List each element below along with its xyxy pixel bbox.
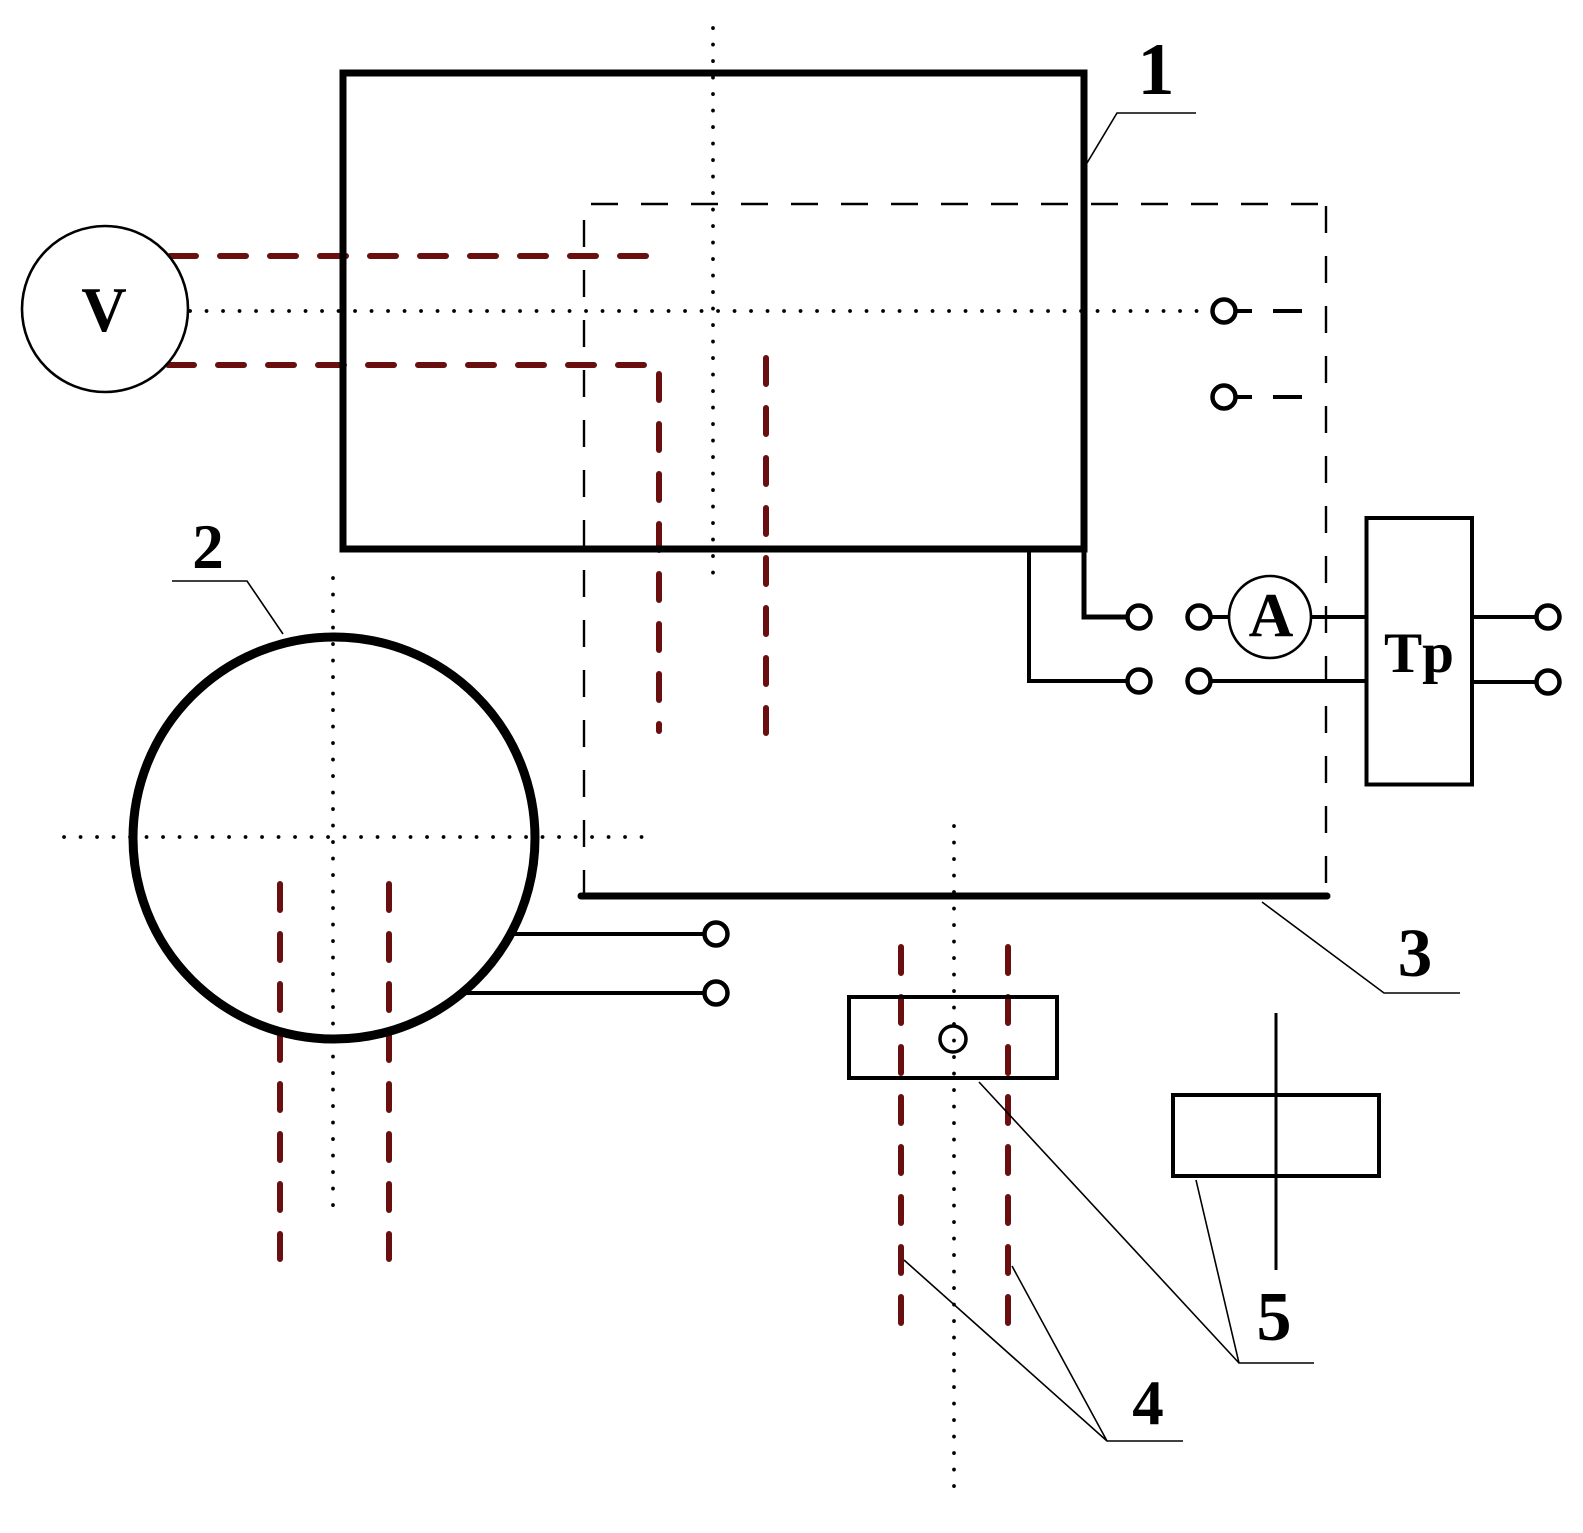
wire from stator bottom to lower terminal	[1029, 549, 1126, 681]
vertical centerline of stator (dotted)	[711, 28, 715, 580]
terminal circle rotor upper	[705, 923, 728, 946]
svg-text:1: 1	[1138, 29, 1175, 111]
vertical centerline of sensor (dotted)	[952, 826, 956, 1498]
svg-text:A: A	[1249, 582, 1294, 650]
terminal circle rotor lower	[705, 982, 728, 1005]
voltmeter V	[22, 226, 188, 392]
terminal upper right b	[1213, 386, 1303, 409]
red dashed probe lead upper	[170, 253, 662, 259]
dashed enclosure boundary 3	[591, 203, 1326, 205]
wire terminal to ammeter	[1212, 615, 1229, 619]
horizontal centerline of rotor (dotted)	[64, 835, 642, 839]
svg-text:V: V	[81, 275, 127, 345]
wire lower terminal to transformer	[1212, 679, 1366, 683]
wire transformer output upper	[1474, 615, 1535, 619]
wire transformer output lower	[1474, 680, 1535, 684]
red dashed vertical probe lead	[763, 358, 769, 733]
terminal circle output lower	[1537, 671, 1560, 694]
ammeter A	[1229, 576, 1311, 658]
axis line through sensor block 5b	[1275, 1013, 1278, 1270]
transformer Tp	[1367, 518, 1473, 785]
thick base plate line 3	[581, 893, 1327, 900]
red dashed rotor lead left	[277, 884, 283, 1259]
terminal circle right lower	[1188, 670, 1211, 693]
rotor 2 (thick circle)	[133, 637, 535, 1039]
dashed enclosure boundary 3 right edge	[1325, 206, 1327, 893]
leader line for label 3	[1262, 902, 1460, 993]
svg-text:4: 4	[1132, 1368, 1164, 1438]
leader lines for label 4	[904, 1260, 1183, 1441]
wire ammeter to transformer	[1311, 615, 1366, 619]
terminal circle right upper	[1188, 606, 1211, 629]
dashed enclosure boundary 3 left edge	[583, 220, 585, 893]
horizontal centerline through voltmeter (dotted)	[190, 309, 1201, 313]
svg-text:3: 3	[1398, 915, 1433, 991]
wire rotor to terminal upper	[513, 932, 703, 936]
red dashed probe lead lower with corner	[168, 365, 659, 731]
wire rotor to terminal lower	[464, 991, 703, 995]
leader line for label 1	[1087, 113, 1196, 163]
sensor block 5b	[1173, 1095, 1379, 1176]
svg-text:2: 2	[192, 512, 224, 582]
svg-text:5: 5	[1257, 1279, 1292, 1356]
terminal upper right a	[1213, 300, 1303, 323]
red dashed rotor lead right	[386, 884, 392, 1259]
leader lines for label 5	[979, 1082, 1314, 1363]
svg-text:Tp: Tp	[1384, 622, 1454, 685]
terminal circle output upper	[1537, 606, 1560, 629]
terminal circle left lower	[1128, 670, 1151, 693]
leader line for label 2	[172, 581, 283, 634]
stator winding block 1 (thick rectangle)	[343, 73, 1084, 549]
red dashed sensor lead right	[1005, 947, 1011, 1327]
red dashed sensor lead left	[898, 947, 904, 1327]
sensor block 5a with hole	[849, 997, 1057, 1078]
wire from stator right edge to terminal	[1084, 549, 1126, 617]
terminal circle left upper	[1128, 606, 1151, 629]
vertical centerline of rotor (dotted)	[331, 578, 335, 1206]
